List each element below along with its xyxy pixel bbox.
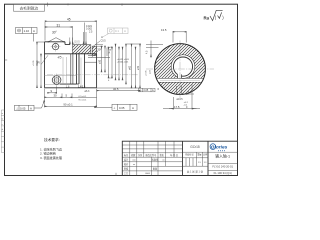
- svg-text:ø62: ø62: [129, 65, 132, 70]
- bolt hole lower with counterbore: [52, 76, 61, 85]
- outer circle hatched: [155, 44, 206, 95]
- svg-text:FLY10 240 20-01: FLY10 240 20-01: [212, 164, 233, 168]
- band boundary lines: [157, 78, 203, 82]
- svg-text:0.05: 0.05: [20, 106, 26, 110]
- svg-text:◎: ◎: [139, 89, 141, 92]
- keyway notch: [178, 74, 182, 79]
- svg-text:0.05: 0.05: [144, 89, 149, 92]
- svg-text:30: 30: [54, 94, 58, 98]
- bore circle: [173, 57, 192, 76]
- svg-text:FL 100 34 (Q1): FL 100 34 (Q1): [214, 171, 232, 175]
- svg-text:45h6: 45h6: [36, 60, 39, 66]
- svg-text:A: A: [33, 29, 35, 33]
- parallel FCF bottom-middle: [95, 104, 138, 110]
- svg-text:1.6: 1.6: [82, 85, 86, 88]
- bolt hole upper: [52, 43, 58, 49]
- svg-text:0000: 0000: [145, 173, 151, 175]
- svg-text:A: A: [30, 106, 32, 110]
- header tiny texts: [124, 153, 178, 175]
- svg-text:90 ±0.1: 90 ±0.1: [63, 102, 73, 106]
- chained dims below view: [45, 94, 97, 99]
- left vertical dimension lines: [37, 42, 44, 88]
- svg-text:31: 31: [57, 23, 61, 27]
- centering tick marks: [5, 3, 123, 176]
- dim 13.5 above circle: [173, 31, 186, 43]
- svg-text:45: 45: [58, 56, 62, 60]
- middle sub-block: [183, 152, 238, 166]
- left dims of circle: [146, 41, 163, 58]
- svg-text:-0.01: -0.01: [124, 61, 130, 63]
- centerlines right view: [146, 41, 214, 100]
- svg-text:c: c: [2, 124, 3, 126]
- svg-text:17.5: 17.5: [174, 105, 180, 109]
- dimension 45 top: [45, 21, 97, 53]
- faint position FCF top-middle: [103, 28, 128, 37]
- straightness FCF left: [15, 101, 45, 111]
- left sub-block grid: [122, 141, 182, 175]
- svg-text:ø14.5: ø14.5: [177, 98, 184, 101]
- svg-text:输入轴-1: 输入轴-1: [215, 154, 230, 159]
- deburr note box top-left: [14, 4, 45, 11]
- svg-text:ø30: ø30: [99, 59, 102, 64]
- countersink angle callout (^ above plate): [48, 38, 65, 42]
- dimension 9 below lower bolt hole: [48, 87, 57, 94]
- drawing frame border: [5, 4, 238, 175]
- left margin revision strip: [1, 110, 4, 152]
- svg-text:GCr15: GCr15: [190, 145, 200, 149]
- bore ring white: [171, 55, 195, 79]
- svg-text:A: A: [124, 29, 126, 33]
- svg-text:C0.5: C0.5: [101, 40, 107, 43]
- svg-text:0.1: 0.1: [115, 29, 119, 33]
- svg-text:d: d: [2, 129, 3, 131]
- position FCF top-left: [16, 28, 38, 42]
- dimension 90 overall: [45, 89, 97, 108]
- outer circle stroke: [155, 44, 206, 95]
- chamfer leader R bottom-left of plate: [41, 55, 48, 64]
- svg-text:30°: 30°: [52, 31, 58, 35]
- logo Glories: [210, 144, 228, 152]
- dimension 31 top: [45, 23, 85, 45]
- svg-text:技术要求:: 技术要求:: [44, 137, 60, 142]
- keyway dims below: [163, 84, 200, 109]
- svg-text:1.10: 1.10: [24, 29, 30, 33]
- slot band white: [155, 78, 205, 82]
- svg-text:Ra: Ra: [204, 15, 210, 20]
- dimension 32.5 right bottom: [97, 90, 140, 92]
- rotated dim texts: [99, 47, 141, 82]
- part outline: flange plate: [45, 42, 111, 88]
- svg-text:A: A: [132, 106, 134, 110]
- svg-text:共 1 张 第 1 张: 共 1 张 第 1 张: [187, 169, 204, 173]
- svg-text:+0.05: +0.05: [146, 70, 148, 76]
- svg-text:45: 45: [67, 17, 71, 21]
- slot walls above hatch: [70, 42, 73, 45]
- svg-text:ø72: ø72: [137, 65, 140, 70]
- svg-text:0.5 ±0.1: 0.5 ±0.1: [79, 96, 88, 98]
- surface finish note Ra top-right: [204, 10, 225, 20]
- axis centerline: [47, 74, 138, 76]
- right dimension line cluster: [97, 44, 141, 88]
- svg-text:9.1 ±0.1: 9.1 ±0.1: [79, 99, 88, 101]
- svg-text:0.05: 0.05: [119, 106, 125, 110]
- svg-text:32.5: 32.5: [113, 87, 119, 91]
- svg-text:13.5: 13.5: [161, 28, 167, 32]
- hatch band upper section A: [73, 45, 91, 54]
- hidden lines in plate: [45, 57, 82, 88]
- svg-text:Glories: Glories: [211, 145, 228, 151]
- svg-text:3. 表面发黑处理: 3. 表面发黑处理: [40, 155, 62, 160]
- svg-text:+0.05: +0.05: [33, 60, 35, 66]
- svg-text:去毛刺锐边: 去毛刺锐边: [20, 6, 39, 11]
- FCF near circle bottom-left: [139, 88, 156, 92]
- hatch band upper section B: [92, 46, 96, 55]
- svg-text:ø6.3: ø6.3: [85, 90, 90, 93]
- right sub-block rows: [208, 164, 238, 171]
